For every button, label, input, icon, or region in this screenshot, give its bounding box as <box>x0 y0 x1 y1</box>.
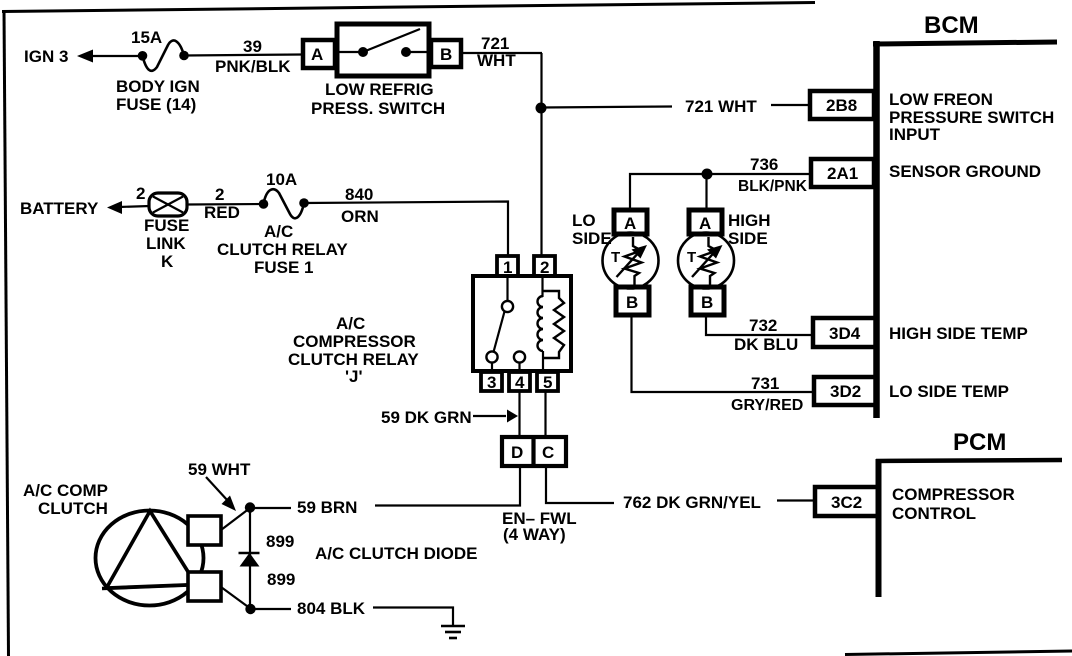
junction node upper <box>245 502 255 512</box>
label BODY IGN FUSE (14) <box>116 77 200 114</box>
connector 3D2 <box>814 377 877 405</box>
svg-text:COMPRESSOR: COMPRESSOR <box>293 332 416 351</box>
sensor LO side temp pin B <box>616 287 649 315</box>
svg-text:A/C: A/C <box>336 314 365 333</box>
wire relay pin 5 to connector C <box>544 391 546 437</box>
wire upper terminal to node <box>221 508 250 530</box>
svg-text:(4 WAY): (4 WAY) <box>503 525 566 544</box>
svg-text:A/C COMP: A/C COMP <box>23 481 108 500</box>
svg-text:4: 4 <box>515 373 525 392</box>
wire 840 ORN to relay pin 1 <box>304 202 508 258</box>
label 2 RED <box>204 185 240 222</box>
svg-text:BLK/PNK: BLK/PNK <box>738 178 808 195</box>
svg-text:LOW REFRIG: LOW REFRIG <box>325 80 434 99</box>
wire switch B to node, circuit 721 WHT <box>461 52 542 54</box>
wire connector D down-left to 59 BRN <box>375 466 520 506</box>
svg-text:D: D <box>511 443 523 462</box>
clutch terminal upper <box>188 516 221 545</box>
svg-text:A/C: A/C <box>264 222 293 241</box>
svg-text:5: 5 <box>543 373 552 392</box>
svg-text:3D2: 3D2 <box>830 382 861 401</box>
svg-text:WHT: WHT <box>477 51 516 70</box>
label LO SIDE <box>572 211 612 248</box>
svg-text:T: T <box>611 249 620 266</box>
svg-text:GRY/RED: GRY/RED <box>731 397 803 414</box>
relay switch contacts <box>486 276 525 372</box>
fuse link K <box>149 193 187 216</box>
relay pin 2 <box>534 256 555 277</box>
svg-text:DK BLU: DK BLU <box>734 335 798 354</box>
wire LO side B to 3D2, circuit 731 GRY/RED <box>632 314 815 392</box>
svg-text:59 BRN: 59 BRN <box>297 498 357 517</box>
PCM module outline <box>876 459 1062 597</box>
svg-text:SENSOR GROUND: SENSOR GROUND <box>889 162 1041 181</box>
wire IGN3 to fuse <box>90 55 143 57</box>
svg-text:COMPRESSOR: COMPRESSOR <box>892 485 1015 504</box>
svg-text:FUSE 1: FUSE 1 <box>254 258 314 277</box>
wire fuse link to fuse, circuit 2 RED <box>187 203 264 206</box>
label A/C CLUTCH RELAY FUSE 1 <box>217 222 348 277</box>
svg-text:CLUTCH RELAY: CLUTCH RELAY <box>217 240 348 259</box>
wire connector C down-right, circuit 762 DK GRN/YEL <box>546 466 614 503</box>
sensor HIGH side temp pin A <box>689 210 722 234</box>
svg-text:731: 731 <box>751 374 779 393</box>
svg-text:721 WHT: 721 WHT <box>685 97 757 116</box>
svg-text:732: 732 <box>749 316 777 335</box>
svg-text:LINK: LINK <box>146 234 186 253</box>
label LOW FREON PRESSURE SWITCH INPUT <box>889 90 1054 144</box>
label 732 DK BLU <box>734 316 798 354</box>
label HIGH SIDE <box>728 211 771 248</box>
sensor LO side temp pin A <box>614 210 647 234</box>
label 59 DK GRN with arrow <box>381 408 518 427</box>
label 59 WHT with arrow <box>188 460 251 511</box>
svg-text:LO SIDE TEMP: LO SIDE TEMP <box>889 382 1009 401</box>
relay K1 A/C compressor clutch relay box <box>473 276 571 371</box>
wire LO side A up and across, circuit 736 BLK/PNK <box>630 174 810 208</box>
label 736 BLK/PNK <box>738 155 808 195</box>
svg-text:899: 899 <box>267 570 295 589</box>
svg-text:B: B <box>701 293 713 312</box>
svg-text:762 DK GRN/YEL: 762 DK GRN/YEL <box>623 493 761 512</box>
svg-text:PNK/BLK: PNK/BLK <box>215 57 291 76</box>
wire junction down to HIGH side A <box>705 174 707 208</box>
svg-text:A: A <box>624 214 636 233</box>
svg-text:B: B <box>626 293 638 312</box>
relay pin 1 <box>497 256 518 277</box>
svg-text:PCM: PCM <box>953 429 1006 456</box>
wire node to 59 BRN label <box>250 507 291 509</box>
svg-text:CONTROL: CONTROL <box>892 504 976 523</box>
junction 721 branch <box>536 103 547 114</box>
svg-text:15A: 15A <box>131 28 162 47</box>
svg-text:CLUTCH: CLUTCH <box>38 499 108 518</box>
svg-text:A/C CLUTCH DIODE: A/C CLUTCH DIODE <box>315 544 477 563</box>
thermistor HIGH side <box>678 233 734 289</box>
switch pin B <box>431 40 461 67</box>
relay pin 5 <box>537 372 558 392</box>
arrow to IGN 3 <box>77 50 93 63</box>
svg-text:HIGH SIDE TEMP: HIGH SIDE TEMP <box>889 324 1028 343</box>
svg-text:K: K <box>161 252 174 271</box>
svg-text:3D4: 3D4 <box>829 324 861 343</box>
svg-text:SIDE: SIDE <box>728 229 768 248</box>
svg-text:2B8: 2B8 <box>826 96 857 115</box>
wire branch to 2B8 <box>541 107 672 108</box>
label A/C COMP CLUTCH <box>23 481 108 518</box>
svg-text:2: 2 <box>136 184 145 203</box>
svg-text:39: 39 <box>243 37 262 56</box>
svg-text:899: 899 <box>266 532 294 551</box>
label 840 ORN <box>341 185 379 226</box>
svg-text:2A1: 2A1 <box>827 164 858 183</box>
relay coil with parallel resistor <box>538 276 565 372</box>
svg-text:'J': 'J' <box>345 367 363 386</box>
svg-text:INPUT: INPUT <box>889 125 941 144</box>
wire lower terminal to node <box>221 587 251 609</box>
svg-text:840: 840 <box>345 185 373 204</box>
ground G1 <box>441 626 465 638</box>
label LOW REFRIG PRESS. SWITCH <box>311 80 445 118</box>
wire fuse to switch pin A, circuit 39 PNK/BLK <box>184 55 302 56</box>
svg-text:C: C <box>542 443 554 462</box>
wire HIGH side B to 3D4, circuit 732 DK BLU <box>706 314 812 335</box>
BCM module outline <box>873 41 1057 418</box>
switch pin A <box>303 40 335 68</box>
wire relay pin 4 to connector D, circuit 59 DK GRN <box>518 391 520 437</box>
wire node to 804 BLK label <box>250 608 291 610</box>
svg-text:A: A <box>311 45 323 64</box>
motor A/C compressor clutch <box>96 511 204 606</box>
connector 2A1 <box>811 159 874 187</box>
sensor HIGH side temp pin B <box>691 287 724 315</box>
wire vertical 721 to relay pin 2 <box>540 53 542 257</box>
svg-text:736: 736 <box>750 155 778 174</box>
svg-text:IGN 3: IGN 3 <box>24 47 68 66</box>
svg-text:3C2: 3C2 <box>831 493 862 512</box>
svg-text:FUSE: FUSE <box>144 216 189 235</box>
svg-text:10A: 10A <box>266 170 297 189</box>
svg-text:59 WHT: 59 WHT <box>188 460 251 479</box>
fuse A/C CLUTCH RELAY FUSE 1 10A <box>259 189 309 218</box>
wire 804 BLK to ground <box>373 608 453 627</box>
label 39 PNK/BLK <box>215 37 291 76</box>
wire battery to fuse link <box>119 206 150 207</box>
svg-text:LO: LO <box>572 211 596 230</box>
svg-text:3: 3 <box>487 373 496 392</box>
svg-text:T: T <box>687 249 696 266</box>
junction node lower <box>245 604 255 614</box>
label FUSE LINK K <box>144 216 189 271</box>
clutch terminal lower <box>188 572 221 601</box>
svg-text:BATTERY: BATTERY <box>20 199 99 218</box>
svg-text:BCM: BCM <box>924 12 979 39</box>
junction sensors common <box>702 169 713 180</box>
svg-text:ORN: ORN <box>341 207 379 226</box>
thermistor LO side <box>603 233 659 289</box>
label A/C COMPRESSOR CLUTCH RELAY 'J' <box>288 314 419 386</box>
wire to 3C2 <box>777 499 815 501</box>
svg-text:HIGH: HIGH <box>728 211 771 230</box>
svg-text:BODY IGN: BODY IGN <box>116 77 200 96</box>
label COMPRESSOR CONTROL <box>892 485 1015 523</box>
svg-text:804 BLK: 804 BLK <box>297 599 366 618</box>
arrow to BATTERY <box>107 201 122 214</box>
svg-text:LOW FREON: LOW FREON <box>889 90 993 109</box>
relay pin 3 <box>481 372 502 392</box>
low refrig press switch U1 <box>337 24 429 76</box>
wire to 2B8 <box>771 104 810 106</box>
fuse BODY IGN FUSE (14) 15A <box>138 40 189 70</box>
svg-text:B: B <box>440 45 452 64</box>
svg-text:FUSE (14): FUSE (14) <box>116 95 196 114</box>
svg-text:PRESS. SWITCH: PRESS. SWITCH <box>311 99 445 118</box>
label 721 WHT <box>477 34 516 70</box>
svg-text:A: A <box>699 214 711 233</box>
relay pin 4 <box>509 372 530 392</box>
label 731 GRY/RED <box>731 374 803 414</box>
connector 3D4 <box>813 318 876 347</box>
diode A/C clutch diode 899 <box>239 508 260 610</box>
connector 2B8 <box>810 91 874 119</box>
connector 3C2 <box>815 487 878 516</box>
connector EN-FWL D C <box>502 437 566 466</box>
svg-text:RED: RED <box>204 203 240 222</box>
svg-text:59 DK GRN: 59 DK GRN <box>381 408 472 427</box>
label EN- FWL (4 WAY) <box>502 509 577 544</box>
svg-text:2: 2 <box>215 185 224 204</box>
